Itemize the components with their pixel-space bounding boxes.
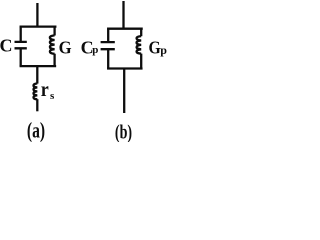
wire: circuit (a) right branch lower lead	[53, 54, 55, 66]
wire: circuit (b) right branch upper lead	[140, 29, 142, 37]
wire: circuit (b) right branch lower lead	[140, 54, 142, 69]
wire: circuit (a) top terminal	[36, 3, 38, 27]
svg-text:C: C	[0, 36, 13, 56]
wire: circuit (a) bottom stub	[36, 99, 38, 111]
wire: circuit (a) left branch lower lead	[20, 48, 22, 66]
svg-text:r: r	[41, 79, 49, 101]
svg-text:(b): (b)	[115, 122, 132, 142]
wire: circuit (b) top terminal	[122, 1, 124, 29]
svg-text:G: G	[59, 37, 72, 57]
wire: circuit (b) left branch lower lead	[107, 49, 109, 68]
wire: circuit (a) top bar	[21, 25, 56, 27]
resistor r_s (series resistance squiggle)	[33, 84, 37, 100]
wire: circuit (b) left branch upper lead	[107, 29, 109, 42]
wire: circuit (b) bottom terminal	[123, 69, 125, 114]
svg-text:(a): (a)	[27, 118, 45, 143]
capacitor Cp plates	[101, 42, 115, 49]
svg-text:s: s	[50, 90, 55, 102]
wire: circuit (b) bottom bar	[108, 67, 141, 69]
wire: circuit (b) top bar	[108, 28, 141, 30]
resistor G (conductance squiggle)	[50, 35, 55, 53]
svg-text:G: G	[149, 38, 161, 58]
wire: circuit (a) bottom bar	[21, 65, 55, 67]
capacitor C plates	[15, 42, 27, 48]
resistor Gp (conductance squiggle)	[137, 36, 142, 54]
svg-text:p: p	[92, 44, 98, 56]
svg-text:p: p	[160, 43, 167, 57]
wire: circuit (a) bottom center tap	[36, 66, 38, 84]
wire: circuit (a) left branch upper lead	[20, 27, 22, 42]
wire: circuit (a) right branch upper lead	[53, 27, 55, 36]
